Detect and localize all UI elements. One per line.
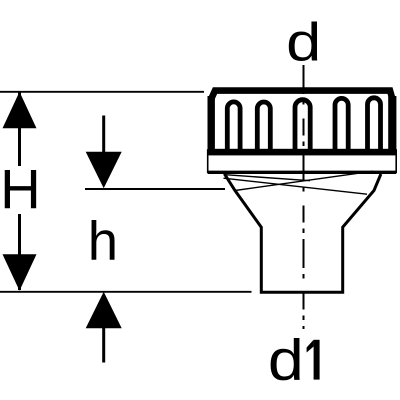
H up arrow <box>3 92 37 129</box>
cap flange (white band with thin outline) <box>208 150 397 172</box>
centerline (dash-dot axis) <box>303 65 305 329</box>
svg-text:h: h <box>88 211 118 272</box>
thread spiral line A <box>224 175 311 181</box>
H dimension lower shaft <box>18 214 21 290</box>
top reference line (H top) <box>0 91 204 93</box>
H down arrow <box>3 254 37 290</box>
cap knurl body (white field) <box>208 87 396 150</box>
knurl slot 5 <box>368 98 381 151</box>
label d1: numeral 1 flag <box>307 340 314 353</box>
h top reference line <box>85 188 225 190</box>
knurl slot 3 (center) <box>295 100 310 151</box>
h down arrow <box>86 152 122 189</box>
svg-text:d: d <box>286 13 321 73</box>
H dimension upper shaft <box>18 92 21 166</box>
thread spiral line B <box>224 178 368 194</box>
svg-text:H: H <box>0 158 41 221</box>
knurl slot 1 <box>227 102 240 151</box>
fitting lower body: neck, cone, spigot outline <box>225 174 381 292</box>
label d1: numeral 1 stem <box>314 340 320 380</box>
cap right edge bar <box>388 96 396 151</box>
h down arrow shaft <box>102 116 105 161</box>
bottom reference line (H/h bottom) <box>0 291 252 293</box>
flange bottom thick line <box>208 171 397 174</box>
thread spiral line D <box>235 171 373 190</box>
h up arrow shaft <box>102 320 105 363</box>
knurl slot 2 <box>257 102 270 151</box>
cap outline (thick top edge with chamfered corners and side bars) <box>211 91 392 152</box>
cap left edge bar <box>207 96 214 151</box>
svg-text:d: d <box>268 328 304 392</box>
knurl slot 4 <box>335 98 348 151</box>
knurl bottom band <box>208 149 396 156</box>
h up arrow <box>86 292 122 329</box>
